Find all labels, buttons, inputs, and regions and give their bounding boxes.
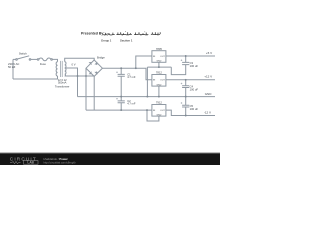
wire 7805 gnd route bbox=[147, 62, 171, 96]
wire secondary top lead bbox=[65, 58, 95, 62]
footer text bbox=[44, 157, 76, 165]
svg-text:100 uF: 100 uF bbox=[190, 87, 199, 91]
bridge rectifier D1 diamond bbox=[86, 60, 102, 76]
wire gnd rail bbox=[78, 96, 216, 98]
svg-text:GND: GND bbox=[156, 61, 161, 63]
svg-text:7812: 7812 bbox=[156, 71, 162, 75]
arabic name squiggle bbox=[103, 32, 160, 36]
svg-text:khalidabdo / Power: khalidabdo / Power bbox=[44, 157, 69, 161]
svg-text:Group 1: Group 1 bbox=[101, 39, 112, 43]
bridge diode glyphs bbox=[89, 62, 91, 64]
wire minus rail to 7912 bbox=[86, 109, 152, 111]
svg-text:Bridge: Bridge bbox=[97, 56, 105, 60]
svg-text:Section 1: Section 1 bbox=[120, 39, 133, 43]
svg-text:GND: GND bbox=[205, 92, 213, 96]
svg-text:0 V: 0 V bbox=[72, 62, 76, 66]
wire branch to 7805 IN bbox=[136, 56, 152, 68]
wire source left vertical bbox=[12, 59, 14, 79]
group / section line bbox=[101, 39, 133, 43]
switch SW1 bbox=[16, 59, 18, 61]
svg-text:7912: 7912 bbox=[156, 101, 162, 105]
svg-text:Transformer: Transformer bbox=[55, 84, 70, 88]
wire top to switch bbox=[13, 58, 16, 60]
title block bbox=[81, 32, 105, 36]
capacitor C2 bbox=[118, 97, 125, 111]
svg-text:GND: GND bbox=[156, 115, 161, 117]
transformer secondary coil bbox=[65, 62, 66, 76]
wire 7812 out / +12V line bbox=[166, 79, 215, 81]
svg-text:IN: IN bbox=[153, 80, 156, 82]
svg-text:OUT: OUT bbox=[160, 110, 165, 112]
svg-text:Presented By:: Presented By: bbox=[81, 32, 105, 36]
svg-text:IN: IN bbox=[153, 56, 156, 58]
regulator U1 7805 box bbox=[152, 51, 166, 63]
wire secondary center tap bbox=[65, 68, 78, 97]
svg-text:4.7 mF: 4.7 mF bbox=[127, 75, 136, 79]
svg-text:50 HZ: 50 HZ bbox=[8, 65, 16, 69]
svg-text:7805: 7805 bbox=[156, 47, 162, 51]
svg-text:100 uF: 100 uF bbox=[190, 107, 199, 111]
svg-text:Switch: Switch bbox=[19, 52, 27, 56]
wire bridge left (minus) down bbox=[85, 68, 87, 110]
footer watermark bar bbox=[0, 151, 220, 154]
capacitor C4 bbox=[182, 80, 189, 97]
capacitor C3 bbox=[171, 56, 189, 75]
wire bottom return bbox=[13, 76, 58, 79]
wire plus rail bbox=[102, 68, 151, 80]
component labels bbox=[8, 47, 212, 115]
wire fuse to transformer primary bbox=[52, 59, 57, 61]
svg-text:http://circuitlab.com/c8svg6r: http://circuitlab.com/c8svg6r bbox=[44, 160, 76, 164]
capacitor C5 bbox=[182, 97, 189, 116]
wire 7912 out / -12V line bbox=[166, 110, 215, 115]
svg-text:100 uF: 100 uF bbox=[190, 64, 199, 68]
svg-text:OUT: OUT bbox=[160, 80, 165, 82]
svg-text:LAB: LAB bbox=[27, 161, 34, 165]
wire 7805 out / +5V line bbox=[166, 55, 215, 57]
svg-text:IN: IN bbox=[153, 110, 156, 112]
wire secondary bottom lead bbox=[65, 75, 95, 77]
svg-text:500mA: 500mA bbox=[58, 80, 67, 84]
transformer core bbox=[60, 61, 62, 77]
wire minus hook to 7912 gnd bbox=[147, 110, 159, 121]
svg-text:+5 V: +5 V bbox=[206, 51, 212, 55]
svg-text:4.7 mF: 4.7 mF bbox=[127, 102, 136, 106]
svg-text:OUT: OUT bbox=[160, 56, 165, 58]
transformer T1 primary coil bbox=[56, 62, 57, 76]
junction dots bbox=[77, 55, 187, 116]
regulator U3 7912 box bbox=[152, 105, 166, 117]
regulator U2 7812 box bbox=[152, 75, 166, 87]
circuitlab logo bbox=[10, 156, 38, 164]
svg-text:GND: GND bbox=[156, 85, 161, 87]
regulator pin texts bbox=[153, 56, 165, 117]
wire 7812 gnd bbox=[158, 86, 160, 97]
wire bridge bottom down to minus rail bbox=[93, 76, 95, 110]
svg-text:+12 V: +12 V bbox=[204, 75, 212, 79]
svg-text:-12 V: -12 V bbox=[204, 111, 211, 115]
capacitor C1 bbox=[118, 68, 125, 96]
fuse F1 bbox=[37, 59, 39, 61]
wire switch to fuse bbox=[31, 58, 38, 60]
svg-text:Fuse: Fuse bbox=[40, 62, 46, 66]
